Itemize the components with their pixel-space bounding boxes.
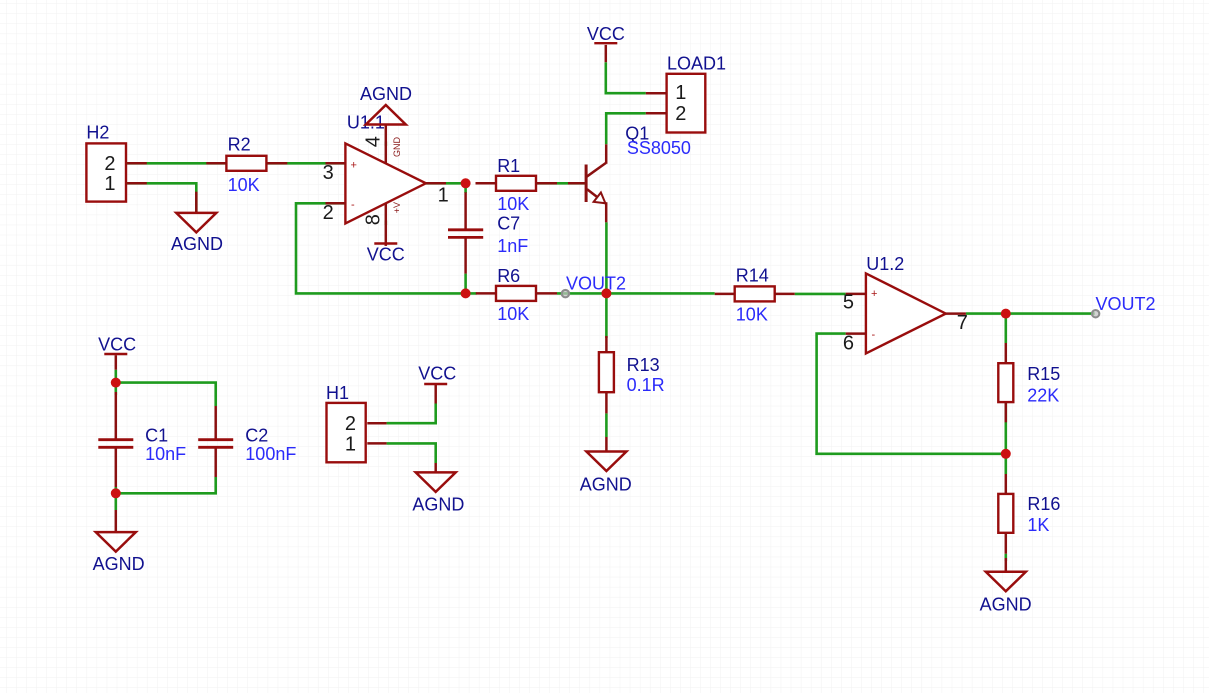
svg-text:4: 4 <box>363 136 385 147</box>
wire U1.1 pin2 feedback loop to R6 <box>296 203 477 293</box>
svg-text:2: 2 <box>675 103 686 125</box>
svg-text:VCC: VCC <box>367 244 405 264</box>
svg-text:AGND: AGND <box>980 595 1032 615</box>
svg-text:R16: R16 <box>1027 494 1060 514</box>
svg-text:R2: R2 <box>228 134 251 154</box>
svg-text:SS8050: SS8050 <box>627 138 691 158</box>
power VCC (U1.1 bottom) <box>374 244 397 246</box>
svg-text:U1.2: U1.2 <box>866 254 904 274</box>
wire H1 pin1 to AGND <box>387 443 436 463</box>
svg-text:+: + <box>351 160 357 172</box>
svg-text:0.1R: 0.1R <box>627 375 665 395</box>
svg-text:3: 3 <box>323 162 334 184</box>
resistor R15 (vertical) <box>998 343 1013 422</box>
resistor R6 <box>476 286 557 301</box>
svg-text:2: 2 <box>345 413 356 435</box>
transistor Q1 <box>568 144 606 222</box>
wire stub U1.1 pin8 <box>384 221 387 226</box>
wire R13 bottom to AGND <box>605 413 608 437</box>
power VCC (H1) <box>424 384 447 404</box>
wire VOUT2 junction to R13 <box>605 293 608 338</box>
wire VCC to LOAD1 pin1 <box>606 62 646 93</box>
connector LOAD1 <box>646 74 706 133</box>
power VCC (top) <box>594 43 617 62</box>
svg-text:AGND: AGND <box>93 554 145 574</box>
svg-text:VCC: VCC <box>98 335 136 355</box>
svg-text:5: 5 <box>843 291 854 313</box>
svg-text:C1: C1 <box>145 426 168 446</box>
op-amp U1.2 <box>846 273 966 353</box>
wire Q1 emitter to VOUT2 junction <box>605 222 608 293</box>
junction node U1.2 out <box>1001 309 1011 319</box>
junction node C1 bottom <box>111 488 121 498</box>
wire R16 bottom to AGND <box>1004 554 1007 561</box>
wire R6 to VOUT2 node to R14 <box>557 292 715 295</box>
svg-text:U1.1: U1.1 <box>347 113 385 133</box>
svg-text:LOAD1: LOAD1 <box>667 54 726 74</box>
wire C1 top junction to C2 branch <box>116 383 216 406</box>
junction node feedback <box>461 288 471 298</box>
net port dot (VOUT2 left) <box>562 290 569 297</box>
svg-text:H1: H1 <box>326 383 349 403</box>
svg-text:C2: C2 <box>245 426 268 446</box>
wire H1 pin2 to VCC <box>387 404 436 424</box>
svg-text:-: - <box>872 329 876 341</box>
svg-text:R1: R1 <box>497 156 520 176</box>
capacitor C1 <box>98 392 133 487</box>
resistor R13 (vertical) <box>599 336 614 413</box>
svg-text:22K: 22K <box>1027 385 1059 405</box>
svg-text:VCC: VCC <box>587 24 625 44</box>
resistor R1 <box>476 176 558 191</box>
connector H1 <box>327 403 387 462</box>
wire H2 pin2 to R2 to U1.1 pin3 <box>127 162 346 165</box>
wire Q1 collector to LOAD1 pin2 <box>606 113 646 144</box>
svg-text:1: 1 <box>438 184 449 206</box>
capacitor C2 <box>198 406 233 477</box>
wire VCC to C1 top junction <box>115 370 118 395</box>
svg-text:7: 7 <box>957 312 968 334</box>
wire C1 bottom to junction <box>115 487 118 510</box>
op-amp U1.1 <box>326 126 447 246</box>
resistor R14 <box>715 286 795 301</box>
wire R14 to U1.2 pin5 <box>795 293 846 296</box>
svg-text:VCC: VCC <box>418 363 456 383</box>
svg-text:1: 1 <box>104 173 115 195</box>
junction node U1.1 out <box>461 178 471 188</box>
svg-text:VOUT2: VOUT2 <box>1096 294 1156 314</box>
svg-text:10K: 10K <box>228 175 260 195</box>
ground AGND (H2) <box>176 192 216 233</box>
svg-text:10K: 10K <box>497 194 529 214</box>
svg-text:10K: 10K <box>736 304 768 324</box>
svg-text:1: 1 <box>345 433 356 455</box>
junction node VOUT2 <box>601 288 611 298</box>
svg-text:6: 6 <box>843 333 854 355</box>
svg-text:GND: GND <box>392 137 402 158</box>
capacitor C7 <box>448 192 483 273</box>
wire C7 bottom to junction <box>464 274 467 294</box>
svg-text:R14: R14 <box>736 266 769 286</box>
svg-text:R15: R15 <box>1027 364 1060 384</box>
wire stub U1.1 pin4 <box>384 142 387 147</box>
svg-text:10nF: 10nF <box>145 444 186 464</box>
wire H2 pin1 to AGND <box>127 183 196 213</box>
ground AGND (U1.1 top, flipped) <box>366 105 406 125</box>
ground AGND (R16) <box>986 558 1026 591</box>
svg-text:R6: R6 <box>497 266 520 286</box>
svg-text:H2: H2 <box>86 123 109 143</box>
wire C2 bottom to junction row <box>116 477 216 493</box>
svg-text:10K: 10K <box>497 304 529 324</box>
svg-text:100nF: 100nF <box>245 444 296 464</box>
resistor R2 <box>206 156 287 171</box>
ground AGND (H1) <box>416 463 456 492</box>
wire R1 to Q1 base <box>537 182 585 185</box>
svg-text:1: 1 <box>675 82 686 104</box>
ground AGND (R13) <box>586 437 626 471</box>
wire U1.2 pin6 feedback loop <box>817 334 1006 454</box>
svg-text:R13: R13 <box>627 355 660 375</box>
svg-text:+V: +V <box>392 202 402 213</box>
connector H2 <box>86 143 146 201</box>
svg-text:VOUT2: VOUT2 <box>566 274 626 294</box>
svg-text:AGND: AGND <box>412 494 464 514</box>
wire U1.1 output to junction <box>426 182 466 185</box>
svg-text:C7: C7 <box>497 214 520 234</box>
net port dot (VOUT2 right) <box>1092 310 1099 317</box>
wire junction to C7 top <box>464 183 467 193</box>
svg-text:AGND: AGND <box>580 474 632 494</box>
wire U1.2 output to VOUT2 flag <box>966 312 1095 315</box>
svg-text:2: 2 <box>104 153 115 175</box>
svg-text:AGND: AGND <box>171 234 223 254</box>
junction node C1 top <box>111 378 121 388</box>
svg-text:1nF: 1nF <box>497 236 528 256</box>
svg-text:+: + <box>871 288 877 300</box>
wire junction to R15 top <box>1004 314 1007 343</box>
junction node feedback 2 <box>1001 449 1011 459</box>
svg-text:-: - <box>351 199 355 211</box>
svg-text:8: 8 <box>363 214 385 225</box>
resistor R16 (vertical) <box>998 474 1013 554</box>
wire R15 bottom to junction <box>1004 402 1007 454</box>
power VCC (C1) <box>104 354 127 370</box>
svg-text:AGND: AGND <box>360 84 412 104</box>
wire junction to R16 top <box>1004 454 1007 474</box>
ground AGND (C1) <box>96 510 136 552</box>
svg-text:1K: 1K <box>1027 515 1049 535</box>
svg-text:2: 2 <box>323 202 334 224</box>
